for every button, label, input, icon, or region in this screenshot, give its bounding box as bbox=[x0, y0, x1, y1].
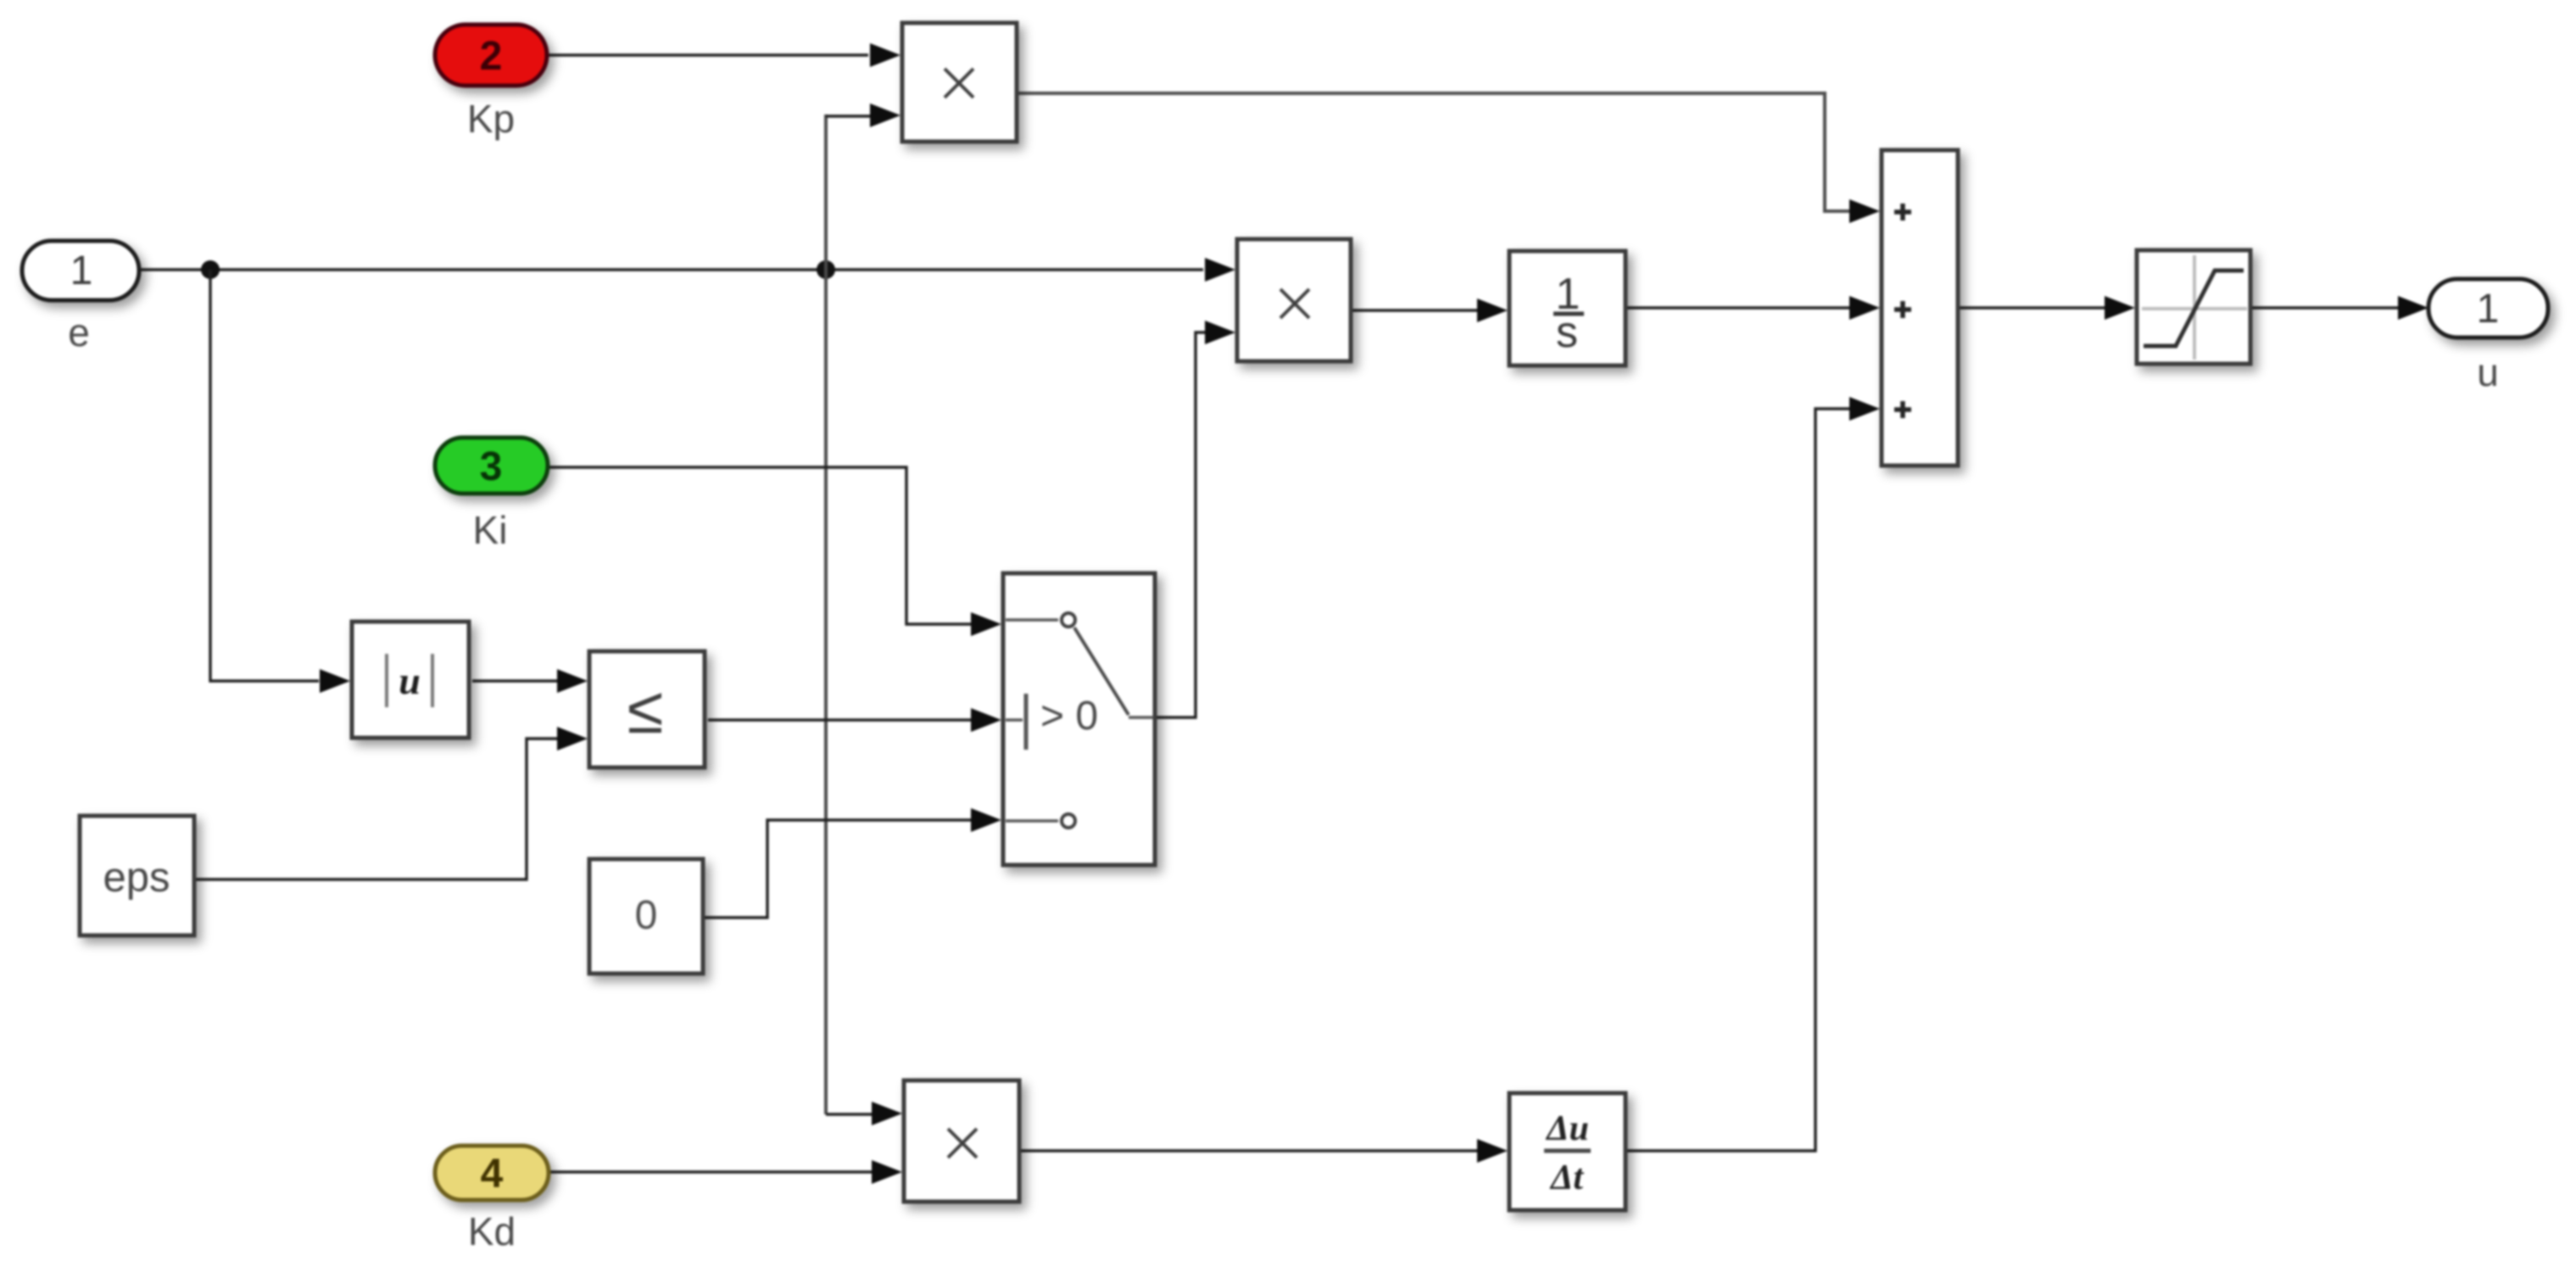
svg-text:Δu: Δu bbox=[1545, 1109, 1589, 1148]
saturation block bbox=[2137, 250, 2250, 364]
label Kp bbox=[467, 97, 515, 141]
switch block bbox=[1003, 573, 1155, 865]
wire e branch vertical to product1 and product3 bbox=[826, 103, 902, 1125]
svg-text:1: 1 bbox=[70, 248, 93, 293]
label Ki bbox=[473, 508, 508, 552]
svg-text:Δt: Δt bbox=[1549, 1158, 1584, 1197]
wire e main horizontal bbox=[139, 258, 1235, 282]
svg-text:u: u bbox=[2477, 350, 2499, 394]
wire saturation to outport bbox=[2252, 296, 2428, 320]
svg-text:> 0: > 0 bbox=[1040, 694, 1098, 739]
sum block bbox=[1882, 150, 1958, 466]
svg-text:e: e bbox=[68, 310, 90, 354]
wire zero to switch input3 bbox=[705, 808, 1001, 918]
svg-text:Kp: Kp bbox=[467, 97, 515, 141]
node junction dot 1 bbox=[201, 260, 220, 279]
wire product2 to integrator bbox=[1352, 299, 1508, 322]
wire Kd to product3 input2 bbox=[550, 1160, 902, 1184]
svg-text:0: 0 bbox=[635, 893, 658, 938]
derivative du/dt block bbox=[1509, 1093, 1625, 1210]
product3 Kd x e bbox=[904, 1080, 1019, 1202]
svg-text:eps: eps bbox=[103, 855, 170, 901]
svg-text:Ki: Ki bbox=[473, 508, 508, 552]
label e bbox=[68, 310, 90, 354]
outport 1 u bbox=[2428, 279, 2548, 338]
svg-text:3: 3 bbox=[480, 444, 503, 489]
wire switch to product2 input2 bbox=[1157, 321, 1235, 717]
product1 Kp x e bbox=[902, 23, 1017, 142]
wire leq to switch input2 bbox=[708, 708, 1001, 732]
inport 2 Kp bbox=[435, 25, 547, 86]
svg-text:Kd: Kd bbox=[468, 1209, 516, 1253]
compare leq block bbox=[589, 651, 705, 767]
inport 1 e bbox=[22, 241, 139, 300]
integrator 1/s bbox=[1509, 251, 1625, 366]
svg-text:4: 4 bbox=[481, 1152, 504, 1197]
wire eps to leq input2 bbox=[196, 727, 588, 879]
label Kd bbox=[468, 1209, 516, 1253]
constant eps bbox=[80, 816, 194, 935]
wire sum to saturation bbox=[1960, 296, 2135, 320]
inport 4 Kd bbox=[435, 1146, 549, 1200]
wire deriv to sum input3 bbox=[1627, 397, 1880, 1151]
svg-text:2: 2 bbox=[480, 34, 503, 79]
wire e branch down to abs bbox=[210, 270, 350, 693]
label u bbox=[2477, 350, 2499, 394]
wire abs to leq bbox=[472, 669, 588, 693]
abs block |u| bbox=[352, 622, 469, 738]
svg-text:1: 1 bbox=[2477, 287, 2500, 332]
wire product1 to sum input1 bbox=[1018, 93, 1880, 223]
wire Kp to product1 bbox=[549, 43, 900, 67]
inport 3 Ki bbox=[435, 438, 548, 494]
svg-text:≤: ≤ bbox=[627, 672, 664, 747]
svg-text:s: s bbox=[1556, 308, 1578, 357]
node junction dot 2 bbox=[817, 260, 835, 279]
wire product3 to deriv bbox=[1021, 1139, 1508, 1163]
product2 Ki x e bbox=[1237, 239, 1351, 361]
svg-text:u: u bbox=[399, 659, 421, 702]
constant 0 bbox=[589, 859, 703, 974]
wire integrator to sum input2 bbox=[1627, 296, 1880, 320]
wire Ki to switch input1 bbox=[549, 467, 1001, 636]
